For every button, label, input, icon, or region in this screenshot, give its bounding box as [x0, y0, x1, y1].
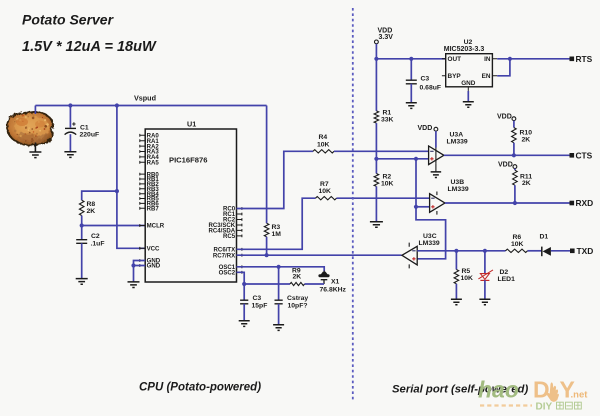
wire potato to Vspud rail	[34, 106, 36, 115]
svg-text:CTS: CTS	[576, 150, 593, 160]
wire R10 to CTS	[513, 143, 515, 156]
wire VDD to U3A	[435, 131, 437, 147]
svg-text:2K: 2K	[87, 208, 96, 215]
capacitor Cstray	[275, 300, 283, 304]
wire C3b top lead	[410, 59, 412, 80]
svg-text:RXD: RXD	[576, 198, 594, 208]
resistor R10	[512, 128, 517, 143]
diode D1	[542, 247, 551, 257]
svg-text:D1: D1	[540, 234, 549, 241]
svg-text:EN: EN	[482, 73, 491, 80]
svg-text:GND: GND	[147, 263, 161, 270]
ground Cstray	[273, 325, 284, 331]
resistor R2	[374, 174, 379, 187]
svg-text:RC5: RC5	[223, 233, 236, 240]
wire R3 to RC7 line	[266, 237, 268, 255]
junction R11 RXD	[513, 201, 517, 205]
capacitor C2	[76, 240, 87, 244]
svg-text:GND: GND	[461, 80, 476, 87]
svg-text:Vspud: Vspud	[134, 94, 156, 103]
node Vspud label	[134, 94, 156, 103]
svg-text:10K: 10K	[319, 188, 332, 195]
ground potato	[29, 152, 41, 158]
chip U1 body	[145, 129, 236, 282]
svg-text:hao: hao	[478, 377, 519, 403]
svg-text:RC7/RX: RC7/RX	[213, 252, 236, 259]
junction R3 on RC7 line	[265, 253, 269, 257]
svg-text:X1: X1	[331, 278, 340, 285]
svg-text:C2: C2	[91, 233, 100, 240]
wire potato bottom lead	[34, 143, 36, 153]
wire R8 branch	[82, 191, 117, 200]
svg-text:76.8KHz: 76.8KHz	[320, 286, 347, 293]
label R9	[292, 267, 301, 280]
label R1	[381, 110, 394, 124]
svg-text:VDD: VDD	[498, 161, 513, 168]
svg-text:U1: U1	[187, 119, 196, 128]
wire VCC riser	[117, 106, 145, 249]
svg-text:10K: 10K	[511, 241, 524, 248]
power VDD R10	[497, 114, 516, 121]
terminal TXD	[570, 246, 593, 256]
svg-text:R6: R6	[513, 234, 522, 241]
wire MCLR	[82, 225, 146, 227]
resistor R4	[313, 150, 334, 153]
wire VDD3 to OUT line	[375, 44, 377, 59]
resistor R9	[290, 282, 305, 285]
junction VDD3 OUT line	[374, 57, 378, 61]
wire VDD to R11	[514, 169, 516, 171]
svg-text:2K: 2K	[522, 180, 531, 187]
ground R5	[451, 299, 462, 305]
wire R9 to X1	[305, 283, 325, 285]
capacitor C1	[65, 128, 77, 134]
label R7	[319, 181, 332, 195]
svg-text:10pF?: 10pF?	[288, 302, 308, 309]
svg-text:VDD: VDD	[418, 125, 433, 132]
svg-text:1.5V * 12uA = 18uW: 1.5V * 12uA = 18uW	[22, 39, 157, 55]
resistor R5	[454, 270, 459, 284]
wire R6 to D1	[528, 250, 542, 252]
svg-text:LM339: LM339	[447, 139, 468, 146]
svg-text:RB7: RB7	[147, 206, 160, 213]
ground C2	[76, 279, 88, 285]
ground U2	[463, 102, 474, 108]
junction C1 on Vspud	[68, 103, 72, 107]
label U3A	[447, 132, 468, 146]
svg-text:OSC2: OSC2	[219, 270, 236, 277]
label C1	[80, 124, 100, 138]
caption CPU	[139, 382, 261, 394]
svg-text:R7: R7	[320, 181, 329, 188]
wire C2 bottom lead	[81, 243, 83, 278]
wire divider to U3A minus-in	[376, 158, 428, 160]
label D2	[498, 269, 516, 283]
separator dashed line	[352, 8, 354, 401]
chip U1 left pins	[140, 133, 165, 270]
wire to R1	[375, 59, 377, 111]
wire R8 to MCLR node	[81, 216, 83, 240]
label R6	[511, 234, 524, 248]
junction GND pins	[131, 263, 135, 267]
wire RC6 to R7	[237, 198, 316, 249]
capacitor C3 15pF	[240, 300, 248, 304]
wire ref bus down	[416, 159, 446, 259]
resistor R3	[264, 223, 269, 237]
label U2	[444, 39, 485, 53]
svg-text:1M: 1M	[272, 231, 282, 238]
wire U3A to ground	[435, 164, 437, 172]
resistor R6	[506, 249, 528, 252]
svg-text:U3A: U3A	[450, 132, 464, 139]
ground U3A	[431, 172, 442, 178]
label X1	[320, 278, 347, 293]
wire RC7 to U3C output	[237, 254, 402, 256]
label C3 0.68uF	[420, 75, 442, 91]
wire R2 to ground	[375, 186, 377, 221]
wire RXD line	[445, 202, 570, 204]
svg-text:.net: .net	[571, 390, 589, 401]
label C3 15pF	[252, 295, 268, 309]
subtitle text	[22, 39, 157, 55]
wire OUT line	[376, 58, 445, 60]
svg-text:BYP: BYP	[448, 73, 462, 80]
ground C1	[64, 152, 76, 158]
power VDD U3A	[418, 125, 438, 132]
wire Vspud rail	[35, 105, 266, 107]
svg-text:D2: D2	[500, 269, 509, 276]
svg-text:MIC5203-3.3: MIC5203-3.3	[444, 46, 485, 53]
svg-text:Cstray: Cstray	[287, 295, 308, 302]
svg-text:R8: R8	[87, 201, 96, 208]
ground D2	[479, 299, 490, 305]
label PIC16F876	[169, 156, 207, 165]
wire TXD line	[417, 250, 505, 252]
terminal RXD	[570, 198, 594, 208]
svg-text:LED1: LED1	[498, 276, 516, 283]
wire CTS line	[444, 154, 570, 156]
label R8	[87, 201, 96, 215]
wire R4 to U3A	[334, 150, 429, 152]
junction C3b on OUT line	[409, 57, 413, 61]
led D2	[478, 270, 493, 281]
wire OSC1	[237, 267, 325, 271]
wire VDD to R10	[513, 121, 515, 128]
label R10	[520, 130, 533, 144]
junction ref at U3A	[414, 157, 418, 161]
wire Cstray bottom lead	[278, 304, 280, 325]
capacitor C3 0.68uF	[406, 80, 417, 84]
wire RTS line	[497, 58, 569, 60]
svg-text:R1: R1	[383, 110, 392, 117]
svg-text:15pF: 15pF	[252, 302, 268, 309]
caption Serial port	[392, 384, 528, 396]
label D1	[540, 234, 549, 241]
junction VCC riser on Vspud	[115, 103, 119, 107]
svg-text:0.68uF: 0.68uF	[420, 85, 442, 92]
svg-text:LM339: LM339	[419, 240, 440, 247]
ground U1	[128, 282, 140, 288]
svg-text:2K: 2K	[522, 137, 531, 144]
ground C3 15pF	[239, 321, 250, 327]
wire D2 top	[484, 251, 486, 274]
label C2	[91, 233, 105, 248]
wire Vspud to R3	[266, 106, 268, 224]
power VDD 3.3V	[375, 27, 394, 44]
label U3B	[448, 179, 469, 193]
svg-text:R5: R5	[462, 268, 471, 275]
wire C3 bottom lead	[243, 304, 245, 321]
wire U2 gnd	[467, 91, 469, 102]
wire C3b bottom lead	[410, 84, 412, 103]
wire R5 bottom	[455, 284, 457, 299]
svg-text:PIC16F876: PIC16F876	[169, 156, 207, 165]
label R11	[520, 173, 532, 187]
svg-text:220uF: 220uF	[80, 131, 100, 138]
svg-text:3.3V: 3.3V	[379, 34, 394, 41]
junction D2 TXD	[483, 249, 487, 253]
junction R8 branch	[115, 189, 119, 193]
svg-text:MCLR: MCLR	[147, 223, 165, 230]
label Cstray	[287, 295, 308, 309]
label R2	[381, 174, 394, 188]
junction ref at U3B	[414, 205, 418, 209]
svg-text:.1uF: .1uF	[91, 241, 105, 248]
wire D2 bottom	[484, 280, 486, 299]
svg-text:U3B: U3B	[451, 179, 465, 186]
svg-text:IN: IN	[484, 56, 491, 63]
svg-text:R3: R3	[272, 224, 281, 231]
svg-text:RTS: RTS	[576, 54, 593, 64]
label R4	[317, 134, 330, 148]
wire R7 to U3B	[337, 197, 430, 199]
label R3	[272, 224, 282, 238]
terminal CTS	[570, 150, 593, 160]
junction divider	[374, 157, 378, 161]
comparator U3A	[429, 146, 444, 165]
title text	[22, 12, 115, 28]
junction MCLR node	[80, 223, 84, 227]
regulator U2 body	[446, 54, 493, 87]
svg-text:OUT: OUT	[448, 56, 462, 63]
svg-text:33K: 33K	[381, 117, 394, 124]
wire R5 top	[455, 251, 457, 270]
resistor R1	[374, 111, 379, 123]
capacitor C1 plus sign	[72, 122, 75, 125]
ground C3 0.68uF	[406, 103, 417, 109]
chip U1 right pins	[208, 206, 241, 277]
resistor R11	[513, 170, 518, 185]
wire Cstray top lead	[278, 267, 280, 300]
svg-text:TXD: TXD	[577, 246, 594, 256]
wire R1 to divider node	[375, 123, 377, 173]
svg-text:VDD: VDD	[497, 114, 512, 121]
svg-text:Potato Server: Potato Server	[22, 12, 115, 28]
potato battery	[7, 112, 53, 145]
watermark haoDIY	[478, 377, 588, 413]
wire EN loop	[497, 59, 510, 76]
junction R5 TXD	[454, 249, 458, 253]
crystal X1	[318, 271, 329, 284]
resistor R8	[79, 200, 84, 215]
svg-text:R4: R4	[319, 134, 328, 141]
svg-text:DIY: DIY	[536, 402, 553, 413]
regulator U2 pins	[442, 56, 497, 91]
resistor R7	[316, 197, 337, 200]
label U1	[187, 119, 196, 128]
wire C1 bottom lead	[69, 134, 71, 152]
svg-text:CPU (Potato-powered): CPU (Potato-powered)	[139, 382, 261, 394]
power VDD R11	[498, 161, 517, 168]
comparator U3C	[402, 243, 417, 269]
svg-text:RA5: RA5	[147, 160, 160, 167]
wire C1 top lead	[69, 106, 71, 128]
terminal RTS	[570, 54, 593, 64]
label U3C	[419, 233, 440, 247]
svg-text:R10: R10	[520, 130, 533, 137]
wire GND down	[133, 266, 135, 282]
svg-text:U2: U2	[464, 39, 473, 46]
junction R10 CTS	[512, 153, 516, 157]
svg-text:D: D	[533, 377, 550, 403]
wire OSC2	[237, 272, 291, 284]
junction OSC2 C3	[242, 282, 246, 286]
wire ref to U3B	[416, 206, 430, 208]
ground R2	[370, 222, 383, 228]
wire GND pins	[134, 261, 146, 266]
svg-text:LM339: LM339	[448, 186, 469, 193]
svg-text:C3: C3	[253, 295, 262, 302]
wire C3 top lead	[243, 284, 245, 300]
svg-text:R2: R2	[383, 174, 392, 181]
wire RC0 to R4	[237, 151, 314, 208]
svg-text:C1: C1	[80, 124, 89, 131]
svg-text:2K: 2K	[293, 274, 302, 281]
wire R11 to RXD	[514, 185, 516, 203]
svg-text:VCC: VCC	[147, 246, 160, 253]
svg-text:10K: 10K	[317, 141, 330, 148]
comparator U3B	[430, 192, 445, 215]
svg-text:10K: 10K	[381, 181, 394, 188]
junction Cstray on OSC1	[277, 265, 281, 269]
svg-text:C3: C3	[421, 75, 430, 82]
wire D1 to TXD	[551, 250, 570, 252]
junction EN on RTS line	[508, 57, 512, 61]
label R5	[461, 268, 474, 282]
svg-text:10K: 10K	[461, 275, 474, 282]
